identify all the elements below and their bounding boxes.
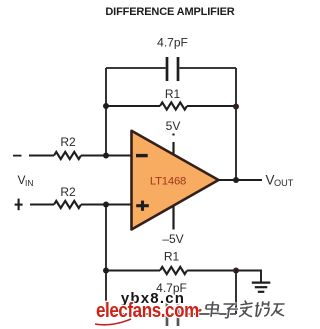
wire non-inverting network vertical x=106 bbox=[105, 205, 107, 315]
svg-text:R2: R2 bbox=[60, 185, 76, 199]
node: output junction bbox=[233, 177, 239, 183]
node: junction bottom-right bbox=[233, 268, 239, 274]
svg-text:4.7pF: 4.7pF bbox=[157, 36, 188, 50]
wire bottom capacitor row y=314 bbox=[106, 313, 236, 315]
node: junction non-inverting input bbox=[103, 202, 109, 208]
op-amp plus input marker bbox=[136, 201, 149, 211]
svg-text:LT1468: LT1468 bbox=[150, 176, 186, 188]
watermark swoosh bbox=[95, 319, 131, 325]
op-amp U1 LT1468 triangle bbox=[132, 131, 219, 230]
supply +5V stub bbox=[172, 134, 174, 154]
wire output bbox=[218, 179, 262, 181]
watermark chinese glyphs 电子发烧友 bbox=[205, 301, 286, 318]
capacitor C1 4.7pF (top) bbox=[167, 57, 178, 81]
wire left feedback vertical x=106 bbox=[105, 68, 107, 156]
wire bottom-right vertical x=236 bbox=[235, 271, 237, 315]
label VOUT bbox=[266, 173, 294, 188]
wire right output vertical x=236 bbox=[235, 68, 237, 180]
wire top feedback loop horizontal y=68 bbox=[106, 67, 236, 69]
node: junction bottom-left bbox=[103, 268, 109, 274]
capacitor C2 4.7pF (ground leg) bbox=[167, 302, 178, 326]
wire to ground bbox=[236, 271, 261, 283]
wire inverting input bbox=[29, 152, 132, 159]
svg-text:–5V: –5V bbox=[162, 232, 183, 246]
minus polarity sign (input) bbox=[13, 155, 22, 157]
resistor R1 (top feedback) bbox=[106, 102, 236, 109]
ground symbol bbox=[252, 283, 270, 292]
svg-text:DIFFERENCE AMPLIFIER: DIFFERENCE AMPLIFIER bbox=[105, 6, 234, 18]
supply -5V stub bbox=[172, 206, 174, 230]
node: junction inverting input bbox=[103, 153, 109, 159]
svg-text:4.7pF: 4.7pF bbox=[156, 281, 187, 295]
svg-text:R2: R2 bbox=[60, 135, 76, 149]
svg-text:OUT: OUT bbox=[274, 178, 294, 188]
svg-text:5V: 5V bbox=[166, 119, 181, 133]
resistor R1 (ground leg) bbox=[106, 267, 236, 274]
plus polarity sign (input) bbox=[15, 199, 23, 211]
op-amp minus input marker bbox=[136, 154, 148, 157]
watermark small red mark bbox=[198, 309, 202, 312]
svg-text:R1: R1 bbox=[165, 87, 181, 101]
label VIN bbox=[18, 173, 34, 188]
node: junction feedback-right / R1 bbox=[233, 104, 239, 110]
svg-text:R1: R1 bbox=[164, 250, 180, 264]
svg-text:IN: IN bbox=[25, 178, 34, 188]
node: junction feedback-left / R1 bbox=[103, 103, 109, 109]
svg-text:elecfans.com: elecfans.com bbox=[96, 299, 199, 322]
wire non-inverting input bbox=[30, 201, 132, 208]
